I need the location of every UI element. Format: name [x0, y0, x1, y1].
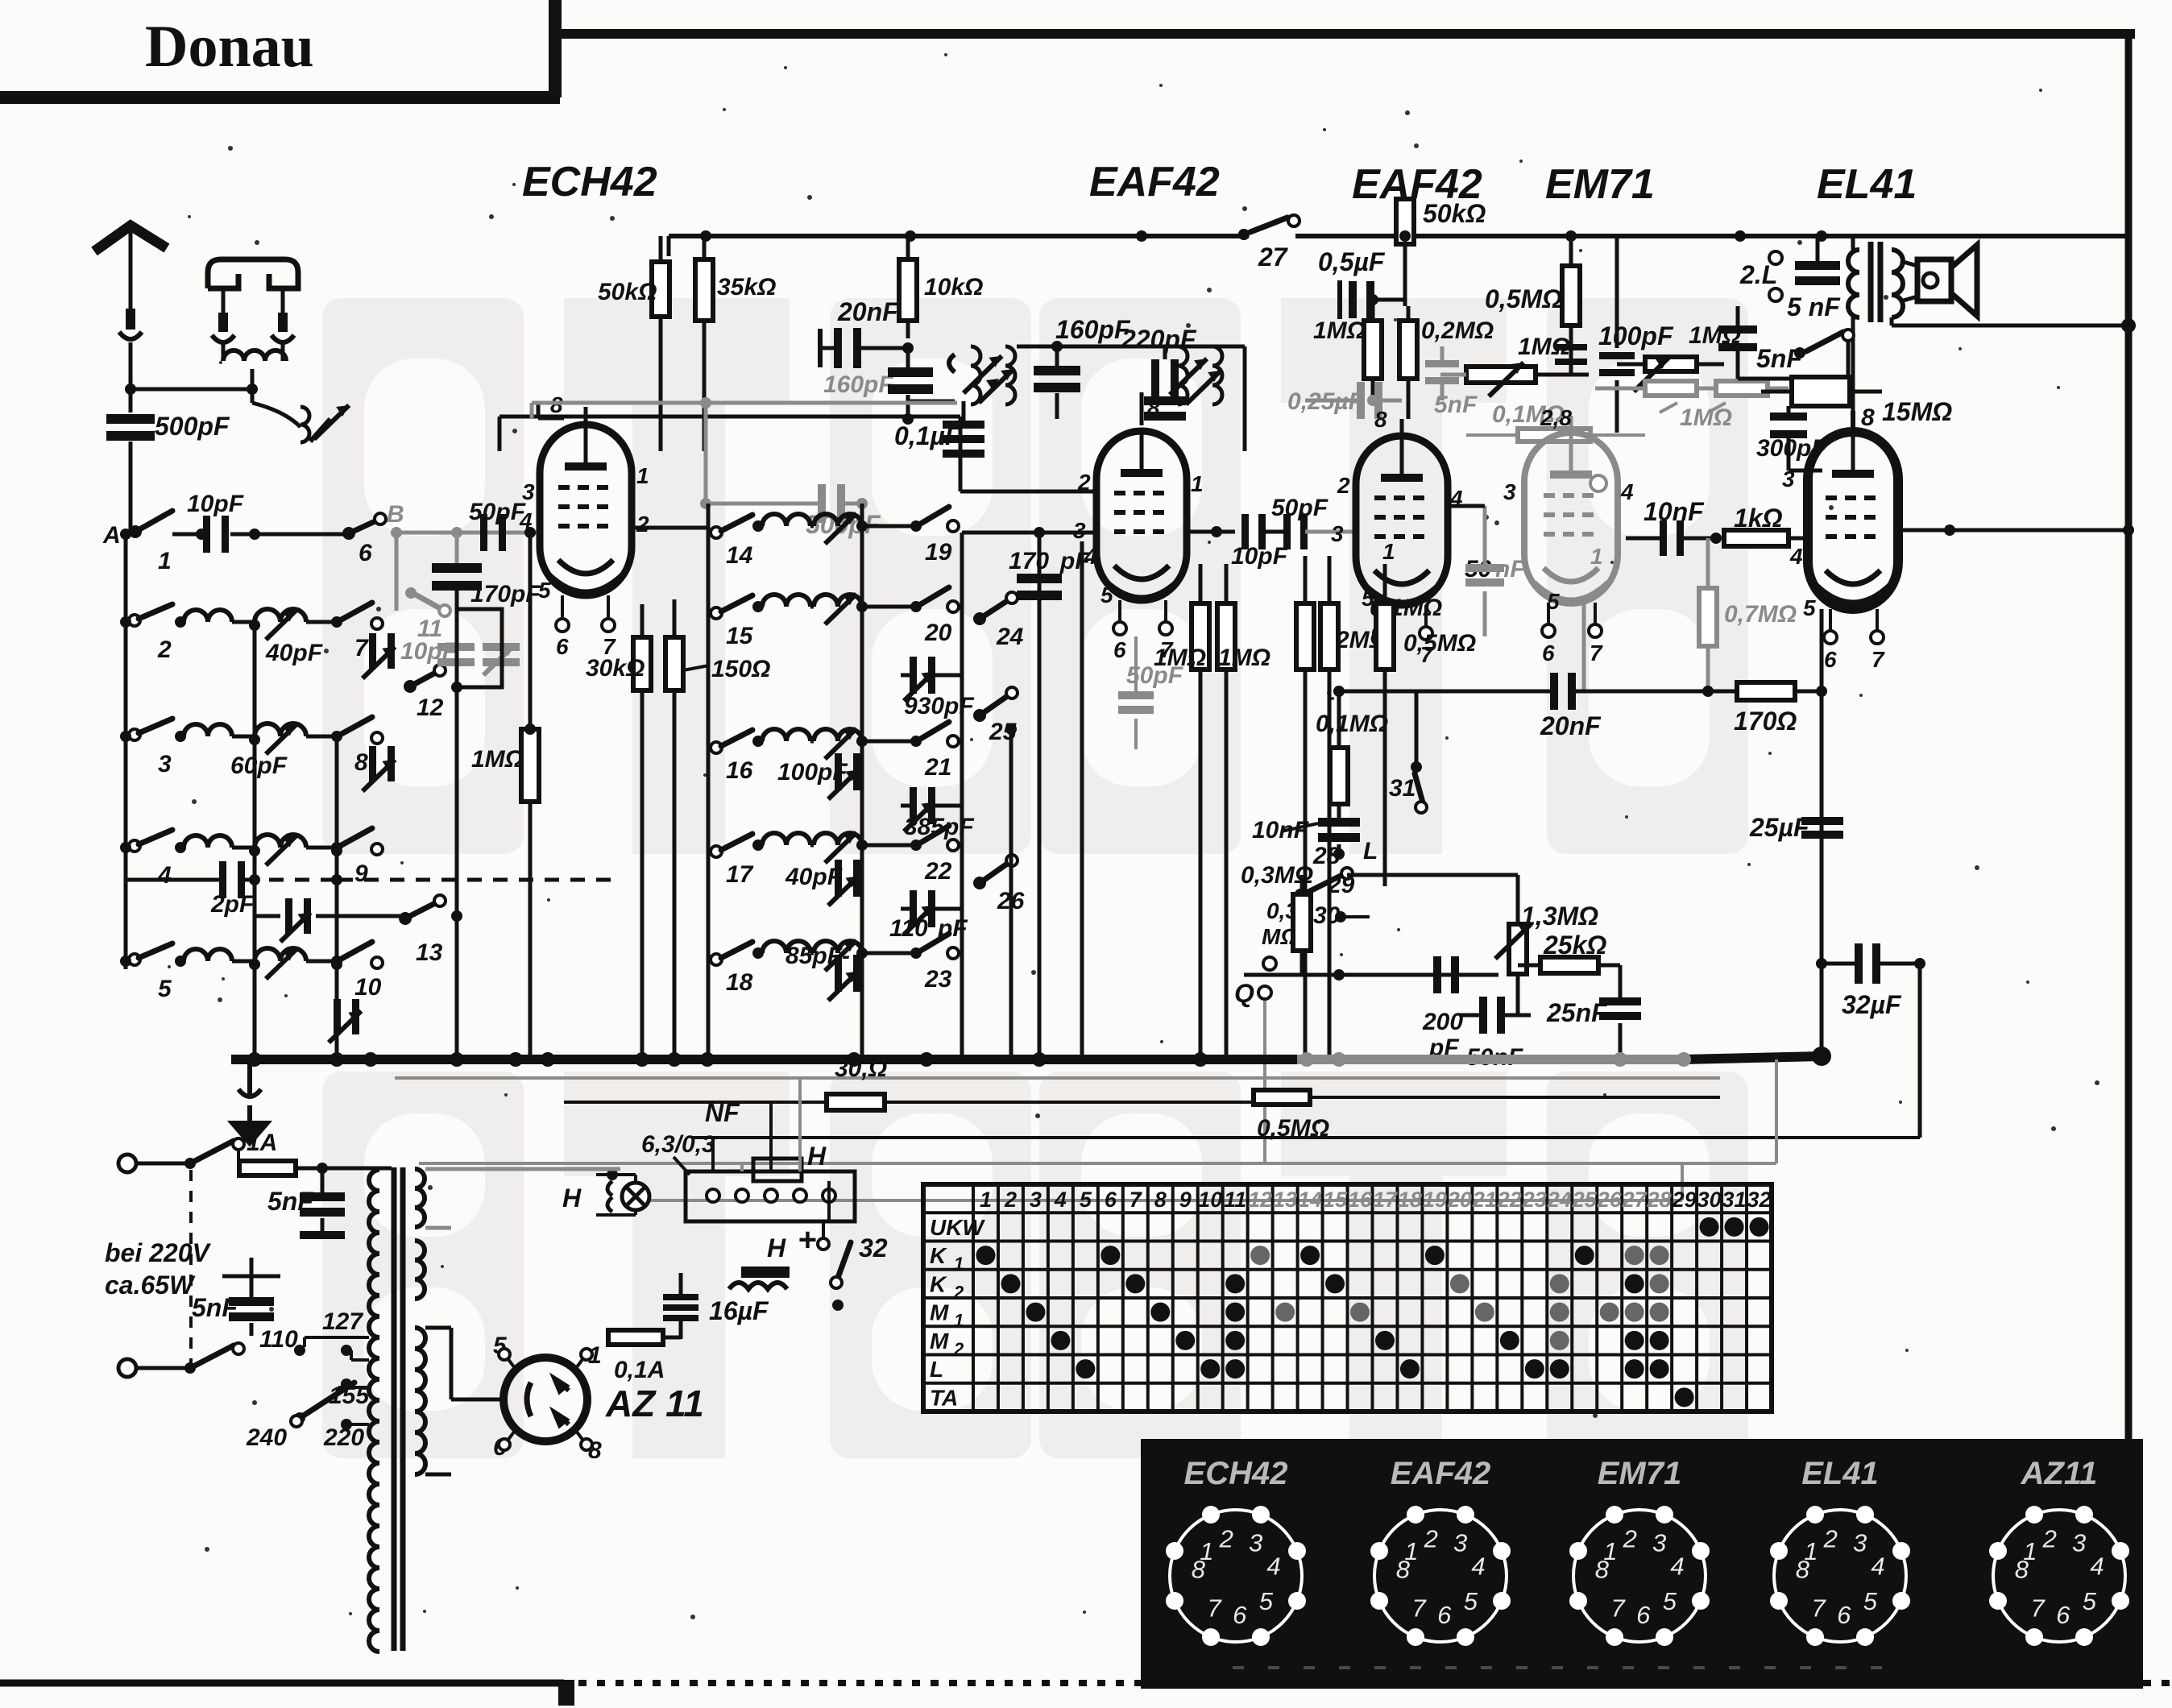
svg-text:3: 3	[1853, 1528, 1867, 1557]
svg-text:19: 19	[925, 539, 952, 566]
svg-text:EL41: EL41	[1817, 161, 1917, 208]
svg-text:5: 5	[2083, 1587, 2097, 1615]
svg-text:11: 11	[1224, 1188, 1246, 1212]
resistor 0.1M gray	[1466, 401, 1645, 442]
capacitor 25uF	[1749, 813, 1843, 842]
capacitor 170pF mid	[1009, 533, 1090, 600]
resistor 1M v1	[1313, 294, 1382, 400]
svg-text:6: 6	[1636, 1601, 1651, 1629]
osc coil mid 18	[814, 940, 922, 971]
svg-text:25nF: 25nF	[1546, 998, 1608, 1027]
svg-text:22: 22	[924, 858, 952, 885]
resistor 2M under	[1320, 556, 1388, 1059]
svg-text:5: 5	[1101, 582, 1113, 607]
svg-text:1: 1	[954, 1254, 964, 1274]
svg-text:7: 7	[1871, 647, 1885, 672]
svg-text:3: 3	[1331, 521, 1344, 546]
svg-text:35kΩ: 35kΩ	[717, 274, 776, 301]
switch 1	[129, 511, 207, 574]
node A	[102, 522, 131, 549]
osc coil mid 17	[814, 832, 922, 863]
svg-text:pF: pF	[937, 915, 968, 942]
capacitor 32uF	[1816, 943, 1925, 1019]
svg-text:25µF: 25µF	[1749, 813, 1810, 842]
capacitor 40pF mid	[785, 860, 860, 906]
capacitor 160pF right	[1017, 315, 1131, 419]
svg-text:2: 2	[1424, 1525, 1438, 1553]
svg-text:24: 24	[1547, 1188, 1572, 1212]
svg-text:23: 23	[924, 966, 952, 993]
wire supply drop1	[1264, 195, 1266, 236]
svg-text:0,5MΩ: 0,5MΩ	[1485, 284, 1562, 313]
antenna coil	[223, 350, 286, 389]
switch 3	[120, 719, 186, 777]
band switch table grid	[923, 1184, 1772, 1412]
svg-text:3: 3	[1652, 1528, 1666, 1557]
switch 9	[340, 828, 383, 887]
resistor 25k	[1518, 931, 1620, 997]
svg-text:2: 2	[1623, 1525, 1637, 1553]
svg-text:6: 6	[556, 634, 569, 659]
svg-text:50pF: 50pF	[1271, 495, 1328, 521]
svg-text:25: 25	[1572, 1188, 1598, 1212]
svg-text:1: 1	[1191, 471, 1204, 496]
svg-text:14: 14	[726, 542, 753, 569]
capacitor 25nF	[1546, 997, 1641, 1059]
wire B to tube	[396, 533, 538, 611]
svg-text:7: 7	[1207, 1594, 1222, 1622]
switch 32	[831, 1233, 888, 1311]
socket EL41	[1770, 1506, 1910, 1646]
EAF42-1 pins bottom	[1113, 600, 1174, 662]
svg-text:14: 14	[1298, 1188, 1322, 1212]
svg-text:15: 15	[1323, 1188, 1348, 1212]
switch 26	[973, 855, 1025, 914]
svg-text:170: 170	[1009, 548, 1049, 574]
svg-text:10pF: 10pF	[187, 491, 244, 517]
ground bus	[231, 1047, 1831, 1067]
svg-text:40pF: 40pF	[785, 864, 843, 890]
switch 21	[919, 722, 959, 781]
svg-text:31: 31	[1722, 1188, 1747, 1212]
svg-text:Q: Q	[1234, 979, 1254, 1008]
Donau title box	[0, 0, 560, 97]
svg-text:50kΩ: 50kΩ	[598, 279, 657, 305]
svg-text:3: 3	[1249, 1528, 1262, 1557]
coil mid 18	[762, 941, 814, 953]
tube EM71	[1524, 433, 1618, 603]
socket EM71	[1569, 1506, 1710, 1646]
label EL41	[1817, 161, 1917, 208]
svg-text:30,Ω: 30,Ω	[835, 1055, 887, 1082]
switch 25	[973, 687, 1018, 745]
mains switch top	[193, 1138, 244, 1168]
wire b+ vertical	[1918, 964, 1922, 1138]
svg-text:27: 27	[1258, 243, 1289, 272]
EL41 grid wire	[1853, 404, 1875, 432]
svg-text:31: 31	[1389, 775, 1416, 802]
svg-text:4: 4	[1084, 544, 1097, 569]
resistor 0.3M avc	[1241, 862, 1313, 889]
svg-text:+: +	[798, 1222, 816, 1258]
svg-text:9: 9	[1179, 1188, 1192, 1212]
coil mid 15	[762, 595, 814, 607]
switch 2	[120, 604, 186, 663]
voltage taps	[246, 1308, 370, 1451]
svg-text:7: 7	[1411, 1594, 1427, 1622]
coil mid 14	[762, 514, 814, 526]
svg-text:2: 2	[157, 636, 172, 663]
svg-text:32µF: 32µF	[1842, 990, 1902, 1019]
fuse 1A	[238, 1130, 392, 1175]
osc transformer T2	[1170, 346, 1222, 404]
socket label AZ11	[2021, 1456, 2098, 1491]
EL41 pins bottom	[1824, 609, 1885, 672]
capacitor 170pF	[432, 527, 541, 609]
capacitor 100pF	[777, 753, 860, 799]
svg-text:10: 10	[354, 974, 382, 1001]
label EAF42 second	[1352, 161, 1482, 208]
resistor 30 ohm	[564, 1055, 1337, 1110]
svg-text:60pF: 60pF	[230, 752, 288, 779]
svg-text:100pF: 100pF	[1598, 321, 1674, 350]
svg-text:K: K	[930, 1271, 947, 1296]
switch 24	[973, 592, 1024, 650]
panel caption	[1233, 1666, 1882, 1669]
resistor 10kOhm	[899, 236, 983, 338]
capacitor 20nF bottom	[1339, 673, 1680, 740]
EAF42-1 grid left wire	[1031, 497, 1053, 499]
switch 10	[340, 942, 383, 1001]
svg-text:1: 1	[954, 1311, 964, 1331]
mid bank rail3	[960, 533, 964, 1059]
svg-text:1MΩ: 1MΩ	[1680, 404, 1732, 431]
capacitor 500pF antenna	[106, 389, 230, 534]
ECH42 pins bottom	[556, 595, 616, 659]
svg-text:10pF: 10pF	[1231, 543, 1288, 570]
svg-text:5: 5	[538, 578, 551, 603]
socket AZ11	[1989, 1506, 2129, 1646]
svg-text:21: 21	[1472, 1188, 1497, 1212]
switch 23	[919, 934, 959, 993]
svg-text:L: L	[930, 1357, 943, 1382]
resistor 170 ohm	[1680, 682, 1827, 736]
tube EL41	[1808, 432, 1898, 609]
switch 7	[340, 603, 383, 661]
svg-text:7: 7	[1610, 1594, 1626, 1622]
svg-text:21: 21	[924, 754, 951, 781]
svg-text:7: 7	[1811, 1594, 1826, 1622]
svg-text:16: 16	[726, 757, 753, 784]
svg-text:H: H	[767, 1233, 786, 1262]
tap wires	[303, 1337, 369, 1424]
svg-text:L: L	[1363, 838, 1378, 864]
node B	[387, 501, 404, 538]
svg-text:4: 4	[1054, 1188, 1067, 1212]
svg-text:1MΩ: 1MΩ	[471, 746, 524, 773]
socket label ECH42	[1184, 1456, 1288, 1491]
EM71 grid wire	[1503, 405, 1634, 614]
switch 19	[919, 507, 959, 566]
switch 17	[711, 834, 764, 888]
svg-text:7: 7	[2030, 1594, 2046, 1622]
pilot lamp	[562, 1169, 649, 1215]
svg-text:6: 6	[1437, 1601, 1452, 1629]
wire under ech42	[667, 690, 682, 1067]
svg-text:1: 1	[980, 1188, 992, 1212]
svg-text:bei 220V: bei 220V	[105, 1238, 212, 1267]
svg-text:160pF: 160pF	[1055, 315, 1131, 344]
svg-text:4: 4	[519, 508, 533, 533]
svg-text:13: 13	[1273, 1188, 1297, 1212]
wire el41 cathode	[1820, 609, 1824, 1056]
capacitor 10pF trimmer	[400, 638, 520, 675]
osc coil row 4	[255, 835, 342, 865]
svg-text:10nF: 10nF	[1644, 497, 1705, 526]
osc coil mid 14	[814, 513, 922, 544]
svg-text:AZ 11: AZ 11	[605, 1383, 704, 1424]
mid bank rail4	[1038, 533, 1042, 1059]
capacitor 385pF	[901, 787, 974, 840]
svg-text:1: 1	[1382, 539, 1395, 564]
svg-text:EM71: EM71	[1598, 1456, 1682, 1491]
capacitor 50nF det	[1460, 975, 1531, 1071]
NF label	[705, 1098, 740, 1127]
tube AZ11 rectifier	[504, 1358, 587, 1441]
terminals 2L	[1739, 251, 1782, 301]
capacitor 50pF det	[1241, 495, 1328, 549]
socket label EM71	[1598, 1456, 1682, 1491]
left bank center rail	[247, 620, 344, 1067]
page border bottom solid	[0, 1680, 2172, 1706]
capacitor 85pF	[785, 943, 860, 1001]
svg-text:12: 12	[1248, 1188, 1272, 1212]
harness line 1	[395, 1076, 1720, 1080]
wire supply left drop	[667, 236, 671, 256]
svg-text:AZ11: AZ11	[2021, 1456, 2098, 1491]
svg-text:5: 5	[1464, 1587, 1478, 1615]
switch 5	[120, 943, 186, 1002]
resistor 1M gray pair	[1595, 381, 1789, 431]
svg-text:6: 6	[359, 540, 372, 566]
NF strip risers	[713, 1078, 829, 1221]
tube socket panel	[1141, 1439, 2143, 1689]
svg-text:5: 5	[1663, 1587, 1677, 1615]
band switch table dots	[976, 1217, 1768, 1407]
svg-text:1MΩ: 1MΩ	[1313, 317, 1366, 344]
svg-text:4: 4	[1871, 1553, 1884, 1581]
speaker	[1900, 245, 1977, 316]
potentiometer 1.3M	[1495, 875, 1598, 1015]
svg-text:EAF42: EAF42	[1391, 1456, 1491, 1491]
coil row 2	[184, 610, 255, 622]
wire osc to grid	[499, 417, 1096, 491]
wire grid bus top	[450, 236, 452, 451]
trimmer cap 60pF	[230, 746, 395, 791]
svg-text:5: 5	[1803, 595, 1816, 620]
svg-text:15MΩ: 15MΩ	[1882, 397, 1952, 426]
resistor 0.1M under	[1296, 556, 1442, 1059]
svg-text:5: 5	[1863, 1587, 1878, 1615]
svg-text:M: M	[930, 1300, 949, 1325]
svg-text:5: 5	[158, 976, 172, 1002]
svg-text:19: 19	[1423, 1188, 1447, 1212]
capacitor 5nF second	[1718, 306, 1803, 379]
capacitor 200pF	[1422, 956, 1463, 1061]
resistor 0.5M top	[1485, 236, 1587, 375]
label 6.3/0.3	[641, 1131, 715, 1175]
svg-text:20nF: 20nF	[1540, 711, 1602, 740]
svg-text:3: 3	[1030, 1188, 1042, 1212]
svg-text:0,5MΩ: 0,5MΩ	[1403, 630, 1476, 657]
svg-text:8: 8	[1396, 1556, 1411, 1584]
output transformer	[1848, 236, 1903, 432]
switch 15	[711, 595, 764, 649]
capacitor 300pF	[1756, 406, 1826, 471]
wire A rail	[124, 534, 128, 969]
svg-text:3: 3	[522, 479, 535, 504]
svg-text:2: 2	[953, 1339, 964, 1359]
svg-text:22: 22	[1497, 1188, 1522, 1212]
svg-text:127: 127	[322, 1308, 363, 1335]
svg-text:3: 3	[2072, 1528, 2086, 1557]
switch 12	[404, 665, 446, 721]
svg-text:28: 28	[1647, 1188, 1672, 1212]
svg-text:170Ω: 170Ω	[1734, 707, 1797, 736]
wire el41 right	[1892, 317, 2134, 536]
svg-text:0,1MΩ: 0,1MΩ	[1316, 711, 1388, 737]
tube ECH42	[540, 425, 632, 595]
ground symbol	[229, 1059, 271, 1146]
svg-text:8: 8	[1374, 407, 1387, 432]
svg-text:1: 1	[636, 463, 649, 488]
svg-text:1: 1	[1590, 544, 1603, 569]
tube EAF42 first	[1096, 431, 1187, 600]
svg-text:ca.65W: ca.65W	[105, 1271, 196, 1300]
svg-text:6,3/0,3: 6,3/0,3	[641, 1131, 715, 1158]
svg-text:10nF: 10nF	[1252, 817, 1309, 844]
svg-text:5: 5	[1080, 1188, 1092, 1212]
osc coil row 2	[255, 609, 342, 640]
AZ11 label	[605, 1383, 704, 1424]
svg-text:EM71: EM71	[1545, 161, 1655, 208]
svg-text:8: 8	[2015, 1556, 2029, 1584]
socket label EL41	[1801, 1456, 1879, 1491]
svg-text:3: 3	[1453, 1528, 1467, 1557]
osc coil mid 16	[814, 728, 922, 759]
svg-text:2: 2	[1077, 470, 1091, 495]
capacitor 10pF row1	[187, 491, 346, 553]
svg-text:6: 6	[1233, 1601, 1247, 1629]
node 28	[1312, 838, 1378, 869]
AZ11 pins	[493, 1333, 602, 1464]
mid bank rail2	[860, 504, 864, 1059]
antenna junction wire	[125, 383, 258, 403]
resistor 0.5M harness	[1254, 1090, 1720, 1142]
NF terminal strip	[686, 1142, 855, 1221]
label 220V	[105, 1238, 212, 1300]
switch 20	[919, 587, 959, 646]
svg-text:0,2MΩ: 0,2MΩ	[1421, 317, 1494, 344]
svg-text:9: 9	[354, 860, 368, 887]
capacitor 5nF top	[1787, 236, 1841, 321]
terminal Q	[1234, 979, 1271, 1163]
svg-text:50pF: 50pF	[469, 499, 526, 525]
node 30	[1313, 902, 1346, 929]
wire sec to az11	[425, 1399, 504, 1474]
svg-text:32: 32	[1747, 1188, 1771, 1212]
wire gray osc	[532, 397, 957, 418]
antenna mast	[94, 226, 167, 389]
svg-text:4: 4	[1471, 1553, 1485, 1581]
svg-text:18: 18	[1398, 1188, 1422, 1212]
capacitor 220pF	[1121, 325, 1197, 421]
transformer core	[394, 1167, 403, 1651]
svg-text:5: 5	[1259, 1587, 1274, 1615]
capacitor 5nF ps1	[267, 1168, 345, 1239]
svg-text:0,5µF: 0,5µF	[1318, 247, 1386, 276]
switch 16	[711, 730, 764, 784]
svg-text:2: 2	[1337, 473, 1350, 498]
transformer primary	[369, 1168, 392, 1652]
svg-text:4: 4	[1266, 1553, 1280, 1581]
EM71 target circle	[1584, 475, 1606, 691]
choke H	[681, 1233, 790, 1296]
osc coil mid 15	[814, 594, 922, 624]
svg-text:K: K	[930, 1243, 947, 1268]
svg-text:200: 200	[1422, 1009, 1463, 1035]
svg-text:2: 2	[636, 512, 649, 537]
page border right	[2121, 34, 2136, 1686]
svg-text:2: 2	[1004, 1188, 1017, 1212]
wire avc row	[1244, 969, 1498, 980]
svg-text:16µF: 16µF	[709, 1296, 769, 1325]
svg-text:40pF: 40pF	[265, 640, 323, 666]
svg-text:17: 17	[1373, 1188, 1399, 1212]
EAF42-2 grid wire	[1374, 407, 1402, 436]
middle bank left rail	[707, 504, 711, 1059]
svg-text:4: 4	[1789, 544, 1803, 569]
switch 29	[1295, 868, 1355, 900]
capacitor 5nF gray	[1425, 346, 1478, 418]
wire det line	[1005, 526, 1235, 1059]
capacitor 16uF	[663, 1273, 769, 1339]
EAF42-2 pins bottom	[1374, 605, 1434, 667]
resistor 0.3M body	[1262, 875, 1311, 975]
svg-text:24: 24	[996, 624, 1024, 650]
svg-text:2: 2	[1219, 1525, 1233, 1553]
watermark	[322, 298, 1748, 1458]
capacitor 500pF gray	[700, 403, 881, 539]
EAF42-2 pin labels	[1331, 473, 1463, 611]
harness line 3	[693, 1136, 1920, 1139]
wire T2 frame	[1096, 346, 1245, 451]
svg-text:NF: NF	[705, 1098, 740, 1127]
svg-text:29: 29	[1672, 1188, 1697, 1212]
svg-text:12: 12	[417, 694, 444, 721]
EM71 pins bottom	[1542, 603, 1603, 665]
svg-text:50kΩ: 50kΩ	[1423, 199, 1486, 228]
trimmer cap row4	[329, 999, 361, 1043]
resistor 1M under2	[1217, 564, 1270, 1059]
frame antenna	[208, 259, 298, 361]
switch 6	[342, 513, 386, 566]
tube EAF42 second	[1356, 436, 1448, 605]
resistor 1MOhm left	[471, 527, 539, 1059]
svg-text:UKW: UKW	[930, 1215, 985, 1240]
resistor 0.7M	[1699, 538, 1797, 691]
capacitor 20nF top	[820, 297, 914, 368]
